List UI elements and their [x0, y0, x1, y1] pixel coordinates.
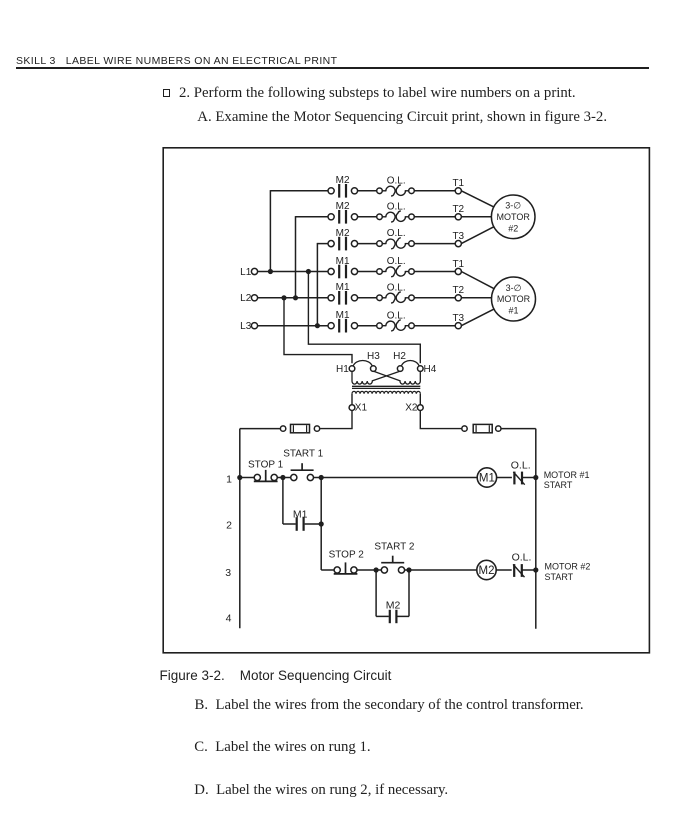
- svg-text:3: 3: [225, 567, 231, 579]
- wire rung M1 T3: [258, 325, 329, 327]
- svg-text:M2: M2: [336, 201, 350, 212]
- control transformer T primary terminal H1: [349, 366, 355, 372]
- wire rung 3 start: [321, 569, 334, 571]
- overload contact O.L. rung3: [512, 564, 522, 577]
- terminal T3: [455, 323, 461, 329]
- fuse (right): [462, 426, 467, 431]
- overload heater O.L. (T3 rung): [377, 323, 383, 329]
- svg-text:MOTOR #1: MOTOR #1: [544, 470, 590, 480]
- svg-text:H4: H4: [424, 364, 437, 375]
- transformer core: [352, 385, 420, 387]
- header running title: [16, 56, 337, 67]
- svg-text:T2: T2: [452, 204, 464, 215]
- contact M2 (T1 rung): [328, 188, 334, 194]
- node rung1-A: [280, 475, 285, 480]
- node rung3-A: [374, 567, 379, 572]
- coil M1: [477, 468, 496, 487]
- substep A text: [197, 110, 607, 125]
- svg-text:STOP 2: STOP 2: [329, 549, 365, 560]
- wire: [358, 216, 377, 218]
- wire: [397, 615, 409, 617]
- wire: [497, 477, 536, 479]
- branch wire rung3 to rung4 (left): [375, 570, 377, 616]
- wire rung M1 T1: [258, 271, 329, 273]
- svg-text:T1: T1: [452, 259, 464, 270]
- branch wire rung1 to rung2 (left): [282, 478, 284, 525]
- checkbox: [163, 89, 170, 97]
- wire: [496, 569, 536, 571]
- wire X2 to right fuse: [420, 411, 461, 429]
- motor #1 (3-phase): [492, 277, 536, 321]
- wire: [414, 297, 455, 299]
- wire rung 2: [283, 523, 296, 525]
- node rail-rung3 right: [533, 567, 538, 572]
- terminal L2: [251, 295, 257, 301]
- svg-text:M2: M2: [386, 599, 401, 611]
- svg-text:2: 2: [226, 519, 232, 531]
- svg-text:START 2: START 2: [374, 541, 414, 552]
- wire rung M2 T1: [270, 190, 328, 192]
- contact M2 (T3 rung): [328, 241, 334, 247]
- svg-text:M1: M1: [336, 256, 350, 267]
- primary coil left: [351, 371, 353, 381]
- node rung3-B: [406, 567, 411, 572]
- contact M1 (T1 rung): [328, 268, 334, 274]
- wire rung M1 T2: [258, 297, 329, 299]
- svg-text:T3: T3: [452, 231, 464, 242]
- node rung2-rail: [319, 521, 324, 526]
- secondary terminal X2: [419, 394, 421, 405]
- contact M1 (seal-in): [296, 517, 298, 531]
- terminal L1: [251, 268, 257, 274]
- svg-text:3-∅: 3-∅: [506, 283, 522, 293]
- overload contact O.L. rung1: [512, 472, 522, 485]
- header rule: [16, 67, 649, 69]
- pushbutton STOP 1 (NC): [254, 474, 260, 480]
- figure caption: [160, 669, 392, 683]
- contact M1 (T3 rung): [328, 323, 334, 329]
- svg-text:#2: #2: [508, 224, 518, 234]
- right rail: [535, 429, 537, 629]
- fuse (left): [314, 426, 319, 431]
- wire: [414, 325, 455, 327]
- wire L2 to M2 rung (vertical): [295, 216, 297, 298]
- svg-text:O.L.: O.L.: [512, 552, 532, 564]
- svg-text:M2: M2: [336, 175, 350, 186]
- wire L3 to M2 rung (vertical): [316, 243, 318, 326]
- svg-text:START: START: [545, 572, 574, 582]
- svg-text:STOP 1: STOP 1: [248, 459, 284, 470]
- wire: [358, 325, 377, 327]
- terminal T1: [455, 268, 461, 274]
- svg-text:#1: #1: [508, 306, 518, 316]
- wire T2 to motor #1: [461, 297, 491, 299]
- svg-text:O.L.: O.L.: [387, 256, 406, 267]
- wire: [358, 271, 377, 273]
- wire L1 to H4: [308, 272, 420, 364]
- overload heater O.L. (T2 rung): [377, 214, 383, 220]
- item D: [194, 783, 448, 798]
- crossover wire H2 to left coil: [372, 371, 400, 381]
- svg-text:X1: X1: [355, 403, 368, 414]
- svg-text:M2: M2: [336, 228, 350, 239]
- wire T3 to motor #1: [461, 309, 494, 326]
- wire T3 to motor #2: [461, 227, 494, 244]
- overload heater O.L. (T1 rung): [377, 188, 383, 194]
- svg-text:H2: H2: [393, 351, 406, 362]
- terminal H2: [397, 366, 403, 372]
- branch wire rung1 to rung3 (right): [320, 478, 322, 571]
- coil M2: [477, 560, 496, 579]
- svg-text:O.L.: O.L.: [387, 228, 406, 239]
- wire: [414, 216, 455, 218]
- svg-text:M2: M2: [479, 565, 495, 577]
- wire: [313, 477, 477, 479]
- wire rung M2 T2: [296, 216, 329, 218]
- svg-text:START: START: [544, 480, 573, 490]
- svg-text:X2: X2: [405, 403, 418, 414]
- wire: [358, 190, 377, 192]
- item B: [195, 698, 584, 713]
- wire fuse to left rail: [240, 428, 280, 430]
- wire: [358, 297, 377, 299]
- branch wire rung3 to rung4 (right): [408, 570, 410, 616]
- step 2 text: [179, 86, 576, 101]
- terminal T2: [455, 295, 461, 301]
- node rung1-B: [319, 475, 324, 480]
- terminal L3: [251, 323, 257, 329]
- wire: [414, 271, 455, 273]
- svg-text:H1: H1: [336, 364, 349, 375]
- wire rung 4: [376, 615, 389, 617]
- wire: [414, 190, 455, 192]
- terminal H3: [371, 366, 377, 372]
- svg-text:MOTOR #2: MOTOR #2: [545, 562, 591, 572]
- secondary coil: [352, 391, 420, 393]
- wire L1 to M2 rung (vertical): [269, 190, 271, 271]
- svg-text:O.L.: O.L.: [387, 175, 406, 186]
- wire rung M2 T3: [317, 243, 328, 245]
- wire T1 to motor #1: [461, 272, 494, 289]
- svg-text:M1: M1: [293, 508, 308, 520]
- node rail-rung1: [237, 475, 242, 480]
- overload heater O.L. (T1 rung): [377, 269, 383, 275]
- pushbutton START 2 (NO): [381, 567, 387, 573]
- overload heater O.L. (T2 rung): [377, 295, 383, 301]
- svg-text:M1: M1: [479, 473, 495, 485]
- wire T2 to motor #2: [461, 216, 491, 218]
- svg-text:M1: M1: [336, 310, 350, 321]
- svg-text:T3: T3: [452, 313, 464, 324]
- svg-text:O.L.: O.L.: [387, 310, 406, 321]
- terminal T1: [455, 188, 461, 194]
- wire: [357, 569, 382, 571]
- wire: [277, 477, 291, 479]
- crossover wire H3 to right coil: [374, 371, 401, 381]
- svg-text:T2: T2: [452, 285, 464, 296]
- left rail: [239, 429, 241, 629]
- wire T1 to motor #2: [461, 191, 494, 207]
- figure 3-2 border frame: [163, 148, 649, 653]
- svg-text:M1: M1: [336, 282, 350, 293]
- wire: [240, 477, 255, 479]
- svg-text:MOTOR: MOTOR: [497, 212, 531, 222]
- wire X1 to left rail: [320, 411, 352, 429]
- contact M2 (seal-in): [389, 610, 391, 623]
- contact M2 (T2 rung): [328, 214, 334, 220]
- wire: [405, 569, 477, 571]
- svg-text:T1: T1: [452, 178, 464, 189]
- svg-text:L2: L2: [240, 293, 252, 304]
- secondary terminal X1: [351, 394, 353, 405]
- svg-text:MOTOR: MOTOR: [497, 294, 531, 304]
- svg-text:4: 4: [226, 613, 232, 625]
- wire fuse to right rail: [501, 428, 536, 430]
- terminal T3: [455, 241, 461, 247]
- wire L2 to H1: [284, 298, 352, 363]
- wire: [414, 243, 455, 245]
- svg-text:O.L.: O.L.: [387, 282, 406, 293]
- svg-text:L3: L3: [240, 321, 252, 332]
- svg-text:3-∅: 3-∅: [505, 201, 521, 211]
- svg-text:1: 1: [226, 473, 232, 485]
- motor #2 (3-phase): [491, 195, 535, 239]
- terminal H4: [418, 366, 424, 372]
- primary jumper arc H2-H4: [401, 361, 419, 367]
- svg-text:L1: L1: [240, 267, 252, 278]
- svg-text:H3: H3: [367, 351, 380, 362]
- wire: [358, 243, 377, 245]
- node rail-rung1 right: [533, 475, 538, 480]
- svg-text:O.L.: O.L.: [387, 201, 406, 212]
- terminal T2: [455, 214, 461, 220]
- contact M1 (T2 rung): [328, 295, 334, 301]
- primary coil right: [419, 371, 421, 381]
- pushbutton START 1 (NO): [291, 474, 297, 480]
- item C: [194, 740, 370, 755]
- wire: [305, 523, 322, 525]
- svg-text:O.L.: O.L.: [511, 460, 531, 472]
- pushbutton STOP 2 (NC): [334, 567, 340, 573]
- primary jumper arc H1-H3: [353, 361, 372, 367]
- svg-text:START 1: START 1: [283, 448, 323, 459]
- overload heater O.L. (T3 rung): [377, 241, 383, 247]
